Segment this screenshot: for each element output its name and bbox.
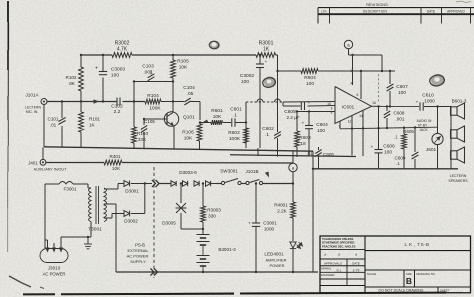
svg-text:SPEAKERS: SPEAKERS xyxy=(448,179,468,183)
svg-text:AUDIO IN: AUDIO IN xyxy=(417,119,432,123)
svg-text:Q101: Q101 xyxy=(183,115,195,121)
svg-text:1K: 1K xyxy=(263,47,270,53)
svg-text:6: 6 xyxy=(357,93,359,97)
scan mark bottom-left diagonal xyxy=(9,276,44,289)
svg-text:R102: R102 xyxy=(66,75,77,80)
svg-text:1000: 1000 xyxy=(424,99,435,105)
svg-text:330: 330 xyxy=(208,214,216,219)
zener D3005 xyxy=(162,184,186,230)
wire Q101 emitter drop xyxy=(173,127,175,149)
svg-text:PS-B: PS-B xyxy=(135,242,145,247)
wire C601 node vertical xyxy=(245,102,247,148)
svg-text:R4001: R4001 xyxy=(274,203,288,208)
svg-text:L K , TS-B: L K , TS-B xyxy=(405,242,430,247)
wire secondary tap top xyxy=(104,184,124,190)
capacitor C607 xyxy=(387,70,408,107)
svg-text:AUXILIARY IN/OUT: AUXILIARY IN/OUT xyxy=(34,168,67,172)
svg-text:.1: .1 xyxy=(396,161,400,166)
svg-text:R106: R106 xyxy=(182,130,194,136)
svg-text:B3001-3: B3001-3 xyxy=(218,247,236,252)
svg-text:R3003: R3003 xyxy=(207,208,221,213)
capacitor C608b xyxy=(384,105,405,128)
smudge blob 1 xyxy=(209,41,220,50)
svg-text:C604: C604 xyxy=(316,122,328,128)
svg-text:100K: 100K xyxy=(229,136,241,142)
svg-text:R105: R105 xyxy=(177,59,189,65)
svg-text:J3010: J3010 xyxy=(48,265,61,270)
svg-text:2.2K: 2.2K xyxy=(277,209,287,214)
op-amp pin 6 wire xyxy=(357,70,363,99)
wire title drop xyxy=(312,151,314,272)
wire box verticals xyxy=(134,55,173,119)
fuse F3001 xyxy=(59,182,77,192)
svg-text:D3005: D3005 xyxy=(162,221,176,226)
svg-text:C610: C610 xyxy=(422,93,434,99)
svg-text:C104: C104 xyxy=(183,85,195,91)
svg-text:100: 100 xyxy=(241,79,249,85)
svg-text:C601: C601 xyxy=(230,107,242,113)
switch J101B xyxy=(245,169,269,185)
svg-text:C608: C608 xyxy=(394,111,405,116)
svg-text:C105: C105 xyxy=(144,119,155,124)
capacitor C605 xyxy=(306,147,334,169)
svg-text:OTHERWISE SPECIFIED: OTHERWISE SPECIFIED xyxy=(322,240,354,244)
chassis dashed boundary xyxy=(153,167,155,278)
title block do not scale xyxy=(379,289,424,293)
resistor R102 xyxy=(66,67,84,91)
revisions table frame xyxy=(318,8,474,24)
svg-text:1: 1 xyxy=(351,69,353,73)
svg-text:.1: .1 xyxy=(233,113,237,119)
diode D3006 xyxy=(206,181,217,186)
capacitor C601 xyxy=(230,107,242,127)
svg-text:C3001: C3001 xyxy=(263,221,277,226)
svg-text:LECTERN: LECTERN xyxy=(25,106,41,110)
capacitor C608a xyxy=(284,100,310,120)
svg-text:.05: .05 xyxy=(187,91,194,97)
svg-text:DRAWN: DRAWN xyxy=(321,266,331,270)
svg-text:LTR: LTR xyxy=(321,10,327,14)
resistor R103 xyxy=(132,119,149,148)
svg-text:18: 18 xyxy=(300,141,306,147)
label PS-B external supply xyxy=(127,242,150,263)
svg-text:+: + xyxy=(95,66,98,72)
diode D3002 xyxy=(124,211,138,224)
svg-text:2.2: 2.2 xyxy=(114,109,121,115)
svg-text:DESCRIPTION: DESCRIPTION xyxy=(363,10,387,14)
switch SW3001 xyxy=(220,168,241,184)
scan edge line bottom xyxy=(23,292,462,294)
wire rectifier join xyxy=(131,182,152,213)
transformer T3001 core xyxy=(96,186,99,224)
svg-text:JACK: JACK xyxy=(419,128,428,132)
svg-text:C3003: C3003 xyxy=(111,67,125,73)
wire ground rail xyxy=(44,147,356,157)
op-amp pin 7 wire xyxy=(339,122,341,129)
wire top rail V+ xyxy=(81,54,278,56)
wire R601 feed xyxy=(200,122,211,124)
svg-text:AC POWER: AC POWER xyxy=(127,253,149,258)
resistor R3002 xyxy=(112,41,132,58)
svg-text:+: + xyxy=(248,221,251,226)
wire box top xyxy=(134,81,173,83)
svg-text:10K: 10K xyxy=(213,114,222,120)
svg-text:R601: R601 xyxy=(211,108,223,114)
smudge blob 3 xyxy=(430,74,445,86)
wire R101 branch xyxy=(80,102,82,148)
svg-text:MIC. IN.: MIC. IN. xyxy=(26,110,38,114)
wire power line xyxy=(159,183,293,185)
svg-text:C606: C606 xyxy=(383,144,395,150)
svg-text:B: B xyxy=(406,276,412,286)
svg-text:D3001: D3001 xyxy=(125,189,139,194)
svg-text:11: 11 xyxy=(348,119,352,123)
title block size xyxy=(406,272,412,286)
smudge blob 2 xyxy=(263,77,276,88)
svg-text:1K: 1K xyxy=(89,123,96,128)
transistor Q101 xyxy=(164,112,195,127)
wire opamp in 8 xyxy=(297,111,335,113)
svg-text:10K: 10K xyxy=(179,65,188,71)
svg-text:APPROVALS: APPROVALS xyxy=(324,261,342,265)
svg-text:R604: R604 xyxy=(304,75,316,81)
svg-text:.1: .1 xyxy=(394,135,398,140)
svg-text:+: + xyxy=(302,121,305,126)
svg-text:.01: .01 xyxy=(50,123,57,128)
wire bottom rail right xyxy=(313,168,458,170)
capacitor C103 xyxy=(142,64,154,81)
svg-text:2-79: 2-79 xyxy=(353,268,360,272)
node box junctions xyxy=(133,80,174,102)
wire opamp output xyxy=(372,74,420,108)
resistor R604 xyxy=(301,69,318,87)
wire C3002 vertical xyxy=(259,54,261,148)
jack J601 xyxy=(426,105,443,168)
resistor R601 xyxy=(211,108,223,125)
wire plug lead 1 xyxy=(45,240,50,253)
corner scribble top-right xyxy=(456,1,471,3)
title block approvals header xyxy=(324,261,360,265)
svg-text:10K: 10K xyxy=(184,136,193,142)
resistor R4001 xyxy=(274,202,295,241)
svg-text:DRAWING NO.: DRAWING NO. xyxy=(417,272,436,276)
svg-text:100K: 100K xyxy=(149,106,161,112)
svg-text:EXTERNAL: EXTERNAL xyxy=(127,248,149,253)
svg-text:LED4001: LED4001 xyxy=(264,251,284,256)
svg-text:DATE: DATE xyxy=(427,10,435,14)
revisions header DESCRIPTION xyxy=(363,10,387,14)
svg-text:C102: C102 xyxy=(111,104,123,110)
wire rail 71 xyxy=(278,70,396,72)
capacitor C101 xyxy=(48,117,66,128)
wire rail connect xyxy=(257,148,259,156)
transformer T3001 primary xyxy=(88,188,91,237)
node A standby top xyxy=(344,40,352,48)
title block drawing no xyxy=(417,272,436,276)
title block frame xyxy=(320,236,471,293)
diode D3005s xyxy=(194,181,199,186)
op-amp pin 11 wire xyxy=(351,115,353,128)
svg-text:C101: C101 xyxy=(48,117,59,122)
svg-text:J401: J401 xyxy=(28,161,38,166)
svg-text:LECTERN: LECTERN xyxy=(450,174,467,178)
wire J101A ground drop xyxy=(43,105,45,147)
wire R3001 C602 drop xyxy=(276,55,278,157)
diode D3003 xyxy=(171,181,176,186)
resistor R602 xyxy=(228,128,248,148)
svg-text:R602: R602 xyxy=(228,130,240,136)
capacitor C104 xyxy=(173,85,200,105)
svg-text:4: 4 xyxy=(351,82,353,86)
revisions header APPROVED xyxy=(447,10,465,14)
svg-text:R401: R401 xyxy=(110,154,121,159)
node power junctions xyxy=(180,182,294,184)
svg-text:C607: C607 xyxy=(396,84,408,90)
label D3003-6 xyxy=(179,170,197,175)
wire primary to plug xyxy=(59,237,91,253)
speaker B601 xyxy=(451,103,465,119)
svg-text:D3002: D3002 xyxy=(124,219,138,224)
label lectern speakers xyxy=(448,174,468,183)
scan edge bar left xyxy=(7,1,10,252)
op-amp pin 14 wire xyxy=(362,111,364,129)
svg-text:14: 14 xyxy=(359,114,363,118)
resistor R104 xyxy=(145,93,173,112)
op-amp IC601 xyxy=(335,87,372,124)
svg-text:+: + xyxy=(371,145,374,150)
wire C101 branch xyxy=(61,102,63,148)
connector chevron bottom xyxy=(150,268,157,275)
svg-text:AMPLIFIER: AMPLIFIER xyxy=(265,258,286,263)
svg-text:D3003-6: D3003-6 xyxy=(179,170,197,175)
svg-text:1000: 1000 xyxy=(264,227,275,232)
capacitor C609 xyxy=(395,128,419,169)
wire plug lead 2 xyxy=(52,243,56,253)
node A standby bottom xyxy=(289,151,297,202)
capacitor C604 xyxy=(302,110,328,156)
wire C601 out xyxy=(235,121,247,123)
node input junctions xyxy=(61,100,104,102)
wire R601 to C601 xyxy=(223,122,232,124)
title block tolerances text xyxy=(322,237,358,256)
svg-text:POWER: POWER xyxy=(269,263,284,268)
op-amp pin bus xyxy=(340,126,438,130)
wire zener join xyxy=(181,228,204,230)
capacitor C3003 xyxy=(95,66,125,79)
svg-text:T3001: T3001 xyxy=(88,227,102,233)
svg-text:J101B: J101B xyxy=(245,169,258,174)
potentiometer R106 xyxy=(182,120,208,150)
capacitor C102 xyxy=(111,98,123,116)
svg-text:R605: R605 xyxy=(403,129,414,134)
svg-text:.01: .01 xyxy=(306,151,313,156)
op-amp pin labels right xyxy=(339,101,376,129)
svg-text:ST-BY: ST-BY xyxy=(418,123,428,127)
speaker B603 xyxy=(451,147,465,163)
svg-text:33K: 33K xyxy=(138,137,147,142)
svg-text:IC601: IC601 xyxy=(342,104,355,109)
svg-text:ENGINEER: ENGINEER xyxy=(321,273,335,277)
svg-text:C103: C103 xyxy=(142,64,154,70)
svg-text:+: + xyxy=(308,100,311,105)
capacitor C105 xyxy=(141,118,156,148)
resistor R401 xyxy=(104,154,122,171)
connector J401 xyxy=(28,147,46,165)
title block scale xyxy=(367,272,376,276)
capacitor C610 xyxy=(416,93,435,111)
connector J101A xyxy=(25,92,47,114)
wire power box left xyxy=(44,184,46,246)
wire R102 branch xyxy=(80,55,82,102)
resistor R3003 xyxy=(201,184,222,230)
revisions header DATE xyxy=(427,10,435,14)
op-amp pin labels left xyxy=(327,102,333,115)
wire battery bottom rail xyxy=(116,271,318,273)
wire secondary center tap xyxy=(104,204,116,272)
svg-text:SCALE: SCALE xyxy=(367,272,376,276)
signal arrow input xyxy=(94,99,100,103)
svg-text:8: 8 xyxy=(331,111,333,115)
title block sheet xyxy=(440,288,450,292)
svg-text:100: 100 xyxy=(398,90,406,96)
speaker B602 xyxy=(451,126,465,142)
svg-text:100: 100 xyxy=(384,150,392,156)
diode D3001 xyxy=(124,181,139,194)
wire opamp in 16 dashed xyxy=(246,99,335,102)
svg-text:C3002: C3002 xyxy=(240,73,254,79)
revisions header LTR xyxy=(321,10,327,14)
wire opamp in 9 xyxy=(283,102,335,106)
label audio in jack xyxy=(417,119,432,132)
svg-text:C602: C602 xyxy=(262,126,274,132)
connector chevron power xyxy=(152,180,159,187)
title block title text xyxy=(405,242,430,247)
title block drawn row xyxy=(321,266,360,272)
svg-text:C605: C605 xyxy=(323,152,334,157)
resistor R101 xyxy=(79,112,101,132)
wire secondary tap bottom xyxy=(104,214,124,219)
svg-text:SUPPLY: SUPPLY xyxy=(130,259,146,264)
wire output to speakers xyxy=(424,106,451,108)
svg-text:REVISIONS: REVISIONS xyxy=(366,3,388,7)
svg-text:SW3001: SW3001 xyxy=(220,168,238,173)
svg-text:4.7K: 4.7K xyxy=(117,47,128,53)
resistor R3001 xyxy=(256,41,276,58)
resistor R605 xyxy=(394,128,414,169)
capacitor C3002 xyxy=(240,59,268,85)
svg-text:APPROVED: APPROVED xyxy=(447,10,465,14)
wire Q101 base xyxy=(144,118,167,120)
svg-text:100: 100 xyxy=(111,73,119,79)
svg-text:J601: J601 xyxy=(426,147,437,153)
wire C104 to emitter node xyxy=(199,102,201,121)
svg-text:8K: 8K xyxy=(69,81,76,86)
capacitor C602 xyxy=(262,126,281,139)
svg-text:R104: R104 xyxy=(147,93,159,99)
battery B3001-3 xyxy=(197,229,237,272)
label auxiliary xyxy=(34,168,67,172)
LED LED4001 xyxy=(264,242,303,272)
svg-text:R101: R101 xyxy=(89,117,100,122)
svg-text:SHEET: SHEET xyxy=(440,288,450,292)
wire standby drop xyxy=(349,49,384,86)
svg-text:AC POWER: AC POWER xyxy=(43,271,66,276)
capacitor C606 xyxy=(371,106,395,168)
svg-text:R103: R103 xyxy=(137,131,149,136)
wire bus to rail xyxy=(352,129,363,157)
revisions table title xyxy=(366,3,388,7)
svg-text:.1: .1 xyxy=(265,132,269,138)
wire C3003 branch xyxy=(102,55,104,102)
svg-text:.001: .001 xyxy=(396,117,405,122)
resistor R105 xyxy=(171,59,189,79)
capacitor C3001 xyxy=(248,184,277,273)
svg-text:.001: .001 xyxy=(143,70,153,76)
svg-text:16: 16 xyxy=(327,102,331,106)
svg-text:10K: 10K xyxy=(112,166,121,171)
svg-text:16: 16 xyxy=(372,101,376,105)
svg-text:100: 100 xyxy=(306,81,314,87)
wire input line xyxy=(47,101,145,103)
svg-text:C609: C609 xyxy=(395,156,406,161)
svg-text:DATE: DATE xyxy=(352,261,360,265)
wire power box top xyxy=(45,184,88,188)
svg-text:DO NOT SCALE DRAWING: DO NOT SCALE DRAWING xyxy=(379,289,424,293)
resistor R603 xyxy=(295,110,311,157)
svg-text:100: 100 xyxy=(317,128,325,134)
svg-text:J101A: J101A xyxy=(25,92,39,97)
svg-text:2.2 µF: 2.2 µF xyxy=(286,115,299,120)
svg-text:+: + xyxy=(265,59,268,64)
svg-text:+: + xyxy=(416,100,419,105)
label B601-3 xyxy=(452,99,467,104)
wire speaker bus xyxy=(450,107,452,169)
transformer T3001 secondary xyxy=(88,188,106,233)
svg-text:FRACTIONS DEC. ANGLES: FRACTIONS DEC. ANGLES xyxy=(322,244,356,248)
connector J3010 xyxy=(40,249,68,277)
title block engineer row xyxy=(321,273,335,277)
svg-text:F3001: F3001 xyxy=(63,187,76,192)
svg-text:. S L: . S L xyxy=(335,269,342,273)
wire aux line xyxy=(46,162,293,165)
ground symbol xyxy=(84,236,92,249)
node top rail junctions xyxy=(80,54,174,56)
diode D3004 xyxy=(183,181,188,186)
